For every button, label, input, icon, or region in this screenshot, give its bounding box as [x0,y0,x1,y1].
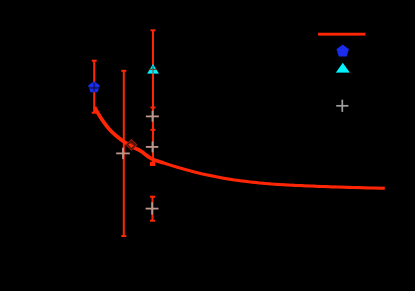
dark x-error stripe across triangle [147,68,160,70]
legend: gray plus sample [336,100,348,112]
dark red open diamond marker on curve (131.7,144.8) [127,140,137,150]
legend: red line sample [318,33,365,36]
cap A top [92,60,97,62]
legend: blue pentagon sample [337,45,349,56]
cap C5 [150,220,155,222]
fit curve tail [161,162,385,188]
cap A bottom [92,112,97,114]
gray plus marker P1 (123.8,153.6) [116,148,130,159]
red filled square marker on column C [150,162,155,166]
error bar column C upper (x=153) [151,30,156,165]
cap C1 [151,29,156,31]
fit curve (red) [95,107,164,163]
error bar column A (x=94.2) [92,61,97,113]
cap B bottom [121,235,126,237]
gray plus marker P4 (152.2,208.5) [146,202,159,214]
dark vertical strip inside triangle [152,66,154,69]
dark vertical strip inside pentagon [93,83,95,92]
cap C2 [151,107,156,109]
error bar column B (x=123.8) [121,71,126,236]
black x-error stripe across pentagon [88,87,101,89]
vertical error line A [93,61,95,113]
cap C3 [151,129,156,131]
legend: cyan triangle sample [336,63,350,73]
error bar column C lower (x=152.5) [150,197,155,221]
blue pentagon data marker (94,87.4) [89,82,100,92]
dark notch of diamond over curve [128,141,136,149]
cap B top [121,70,126,72]
vertical error line B [123,71,125,236]
vertical error line C [152,30,154,165]
vertical error line C lower [152,197,154,221]
gray plus marker P3 (152.8,147.5) [146,141,158,152]
gray plus marker P2 (153,116.6) [146,111,159,122]
cyan triangle data marker (153,69) [147,64,159,74]
cap C4 [150,196,155,198]
